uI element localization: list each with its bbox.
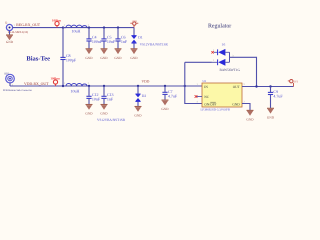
svg-text:U2: U2	[203, 80, 207, 83]
junction OUT x256.5	[255, 85, 257, 87]
svg-text:OUT: OUT	[233, 85, 241, 89]
svg-text:Bias-Tee: Bias-Tee	[26, 56, 50, 63]
capacitor C5 10nF	[101, 28, 116, 49]
ground under C5	[100, 49, 108, 60]
capacitor C4 100nF	[86, 28, 103, 49]
ground under C12	[85, 105, 93, 116]
svg-text:100nF: 100nF	[92, 39, 103, 44]
TVS diode D1	[131, 28, 142, 49]
dual diode D5 BAW56	[212, 43, 234, 65]
junction row2 x89	[88, 85, 90, 87]
ground under C9	[267, 108, 275, 119]
svg-text:1nF: 1nF	[107, 97, 114, 102]
ground under C7	[161, 100, 169, 111]
wire row1 main	[13, 27, 134, 29]
wire diode left to VDD rail	[185, 61, 212, 63]
svg-text:10uH: 10uH	[71, 89, 80, 94]
power port VDD (row1 end)	[130, 20, 138, 28]
svg-text:ON/OFF: ON/OFF	[204, 103, 216, 107]
inductor L2 (row2)	[64, 82, 90, 93]
series capacitor C8 100pF (link row1-row2)	[60, 28, 77, 86]
svg-text:Regulator: Regulator	[208, 22, 231, 29]
junction row2 x185.5	[184, 85, 186, 87]
ground under U2 GND pin	[246, 110, 254, 121]
svg-text:GND: GND	[100, 56, 108, 60]
junction row2 x63	[62, 85, 64, 87]
svg-text:GND: GND	[114, 56, 122, 60]
junction row1 x89	[88, 26, 90, 28]
svg-text:GND: GND	[134, 114, 142, 118]
svg-text:FL-R-SMT-1(10): FL-R-SMT-1(10)	[8, 30, 28, 34]
svg-text:VS12VBA/NST1SR: VS12VBA/NST1SR	[97, 118, 126, 122]
ground under D1	[130, 49, 138, 60]
wire down to ON/OFF	[185, 86, 202, 104]
svg-text:VDD: VDD	[132, 20, 137, 23]
svg-text:10uH: 10uH	[72, 28, 81, 33]
svg-text:PCB Bottom Side Connector: PCB Bottom Side Connector	[3, 89, 32, 92]
svg-text:GND: GND	[100, 112, 108, 116]
svg-text:100hm: 100hm	[50, 76, 60, 80]
regulator U2 LP38692	[197, 80, 246, 107]
svg-text:NC: NC	[204, 95, 209, 99]
power port P2 (row2)	[50, 76, 60, 86]
inductor L1 (row1)	[63, 24, 90, 34]
junction row1 x118	[117, 26, 119, 28]
power port P1 (row1)	[52, 18, 62, 27]
ground under C4	[85, 49, 93, 60]
svg-text:3V3: 3V3	[294, 80, 299, 83]
svg-text:GND: GND	[130, 56, 138, 60]
junction row1 x63	[62, 26, 64, 28]
connector J3 PCB bottom	[5, 72, 15, 86]
junction OUT x270.5	[269, 85, 271, 87]
svg-text:GND: GND	[246, 118, 254, 122]
svg-text:GND: GND	[267, 115, 275, 119]
svg-text:D5: D5	[222, 43, 226, 46]
wire GND pin	[242, 104, 250, 111]
junction row2 x138	[137, 85, 139, 87]
svg-text:D2: D2	[142, 94, 147, 98]
TVS diode D2	[135, 86, 146, 106]
svg-text:4.7uF: 4.7uF	[273, 94, 283, 99]
capacitor C6 1nF	[115, 28, 128, 49]
power port 3V3 (OUT end)	[288, 80, 299, 87]
svg-text:GND: GND	[85, 112, 93, 116]
ground under D2	[134, 107, 142, 118]
svg-text:VDD-RX_OUT: VDD-RX_OUT	[24, 82, 49, 86]
svg-text:LP38692SD-3.3/NOPB: LP38692SD-3.3/NOPB	[201, 108, 230, 112]
svg-text:VDD: VDD	[142, 79, 150, 83]
svg-text:BAW56WT1G: BAW56WT1G	[220, 68, 241, 72]
capacitor C9 4.7uF	[268, 87, 284, 109]
wire OUT rail	[242, 86, 294, 88]
svg-text:REG-RX_OUT: REG-RX_OUT	[16, 23, 41, 27]
svg-text:VS12VBA/NST1SR: VS12VBA/NST1SR	[140, 43, 169, 47]
wire row2 main	[10, 85, 202, 87]
wire diode tap to OUT rail	[230, 57, 257, 86]
ground under C13	[100, 105, 108, 116]
junction row2 x165	[164, 85, 166, 87]
junction row1 x104	[103, 26, 105, 28]
svg-text:GND: GND	[161, 107, 169, 111]
svg-text:GND: GND	[232, 103, 240, 107]
capacitor C12 10nF	[86, 86, 101, 104]
svg-text:100hm: 100hm	[52, 18, 62, 22]
NC pin stub with no-connect X	[195, 95, 202, 98]
wire up to diode pair	[184, 62, 186, 86]
junction row2 x104	[103, 85, 105, 87]
svg-text:D1: D1	[138, 35, 143, 39]
capacitor C13 1nF	[101, 86, 114, 104]
no-connect X on D5 pin 2	[211, 51, 213, 53]
svg-text:10nF: 10nF	[107, 39, 116, 44]
ground under C6	[114, 49, 122, 60]
svg-text:GND: GND	[85, 56, 93, 60]
svg-text:1nF: 1nF	[121, 39, 128, 44]
ground under J1	[6, 31, 14, 45]
svg-text:4.7uF: 4.7uF	[168, 94, 178, 99]
svg-text:100pF: 100pF	[66, 58, 77, 63]
svg-text:IN: IN	[204, 85, 208, 89]
capacitor C7 4.7uF	[162, 86, 178, 100]
svg-text:GND: GND	[6, 40, 14, 44]
connector J1 coax	[5, 21, 16, 30]
svg-text:10nF: 10nF	[92, 97, 101, 102]
